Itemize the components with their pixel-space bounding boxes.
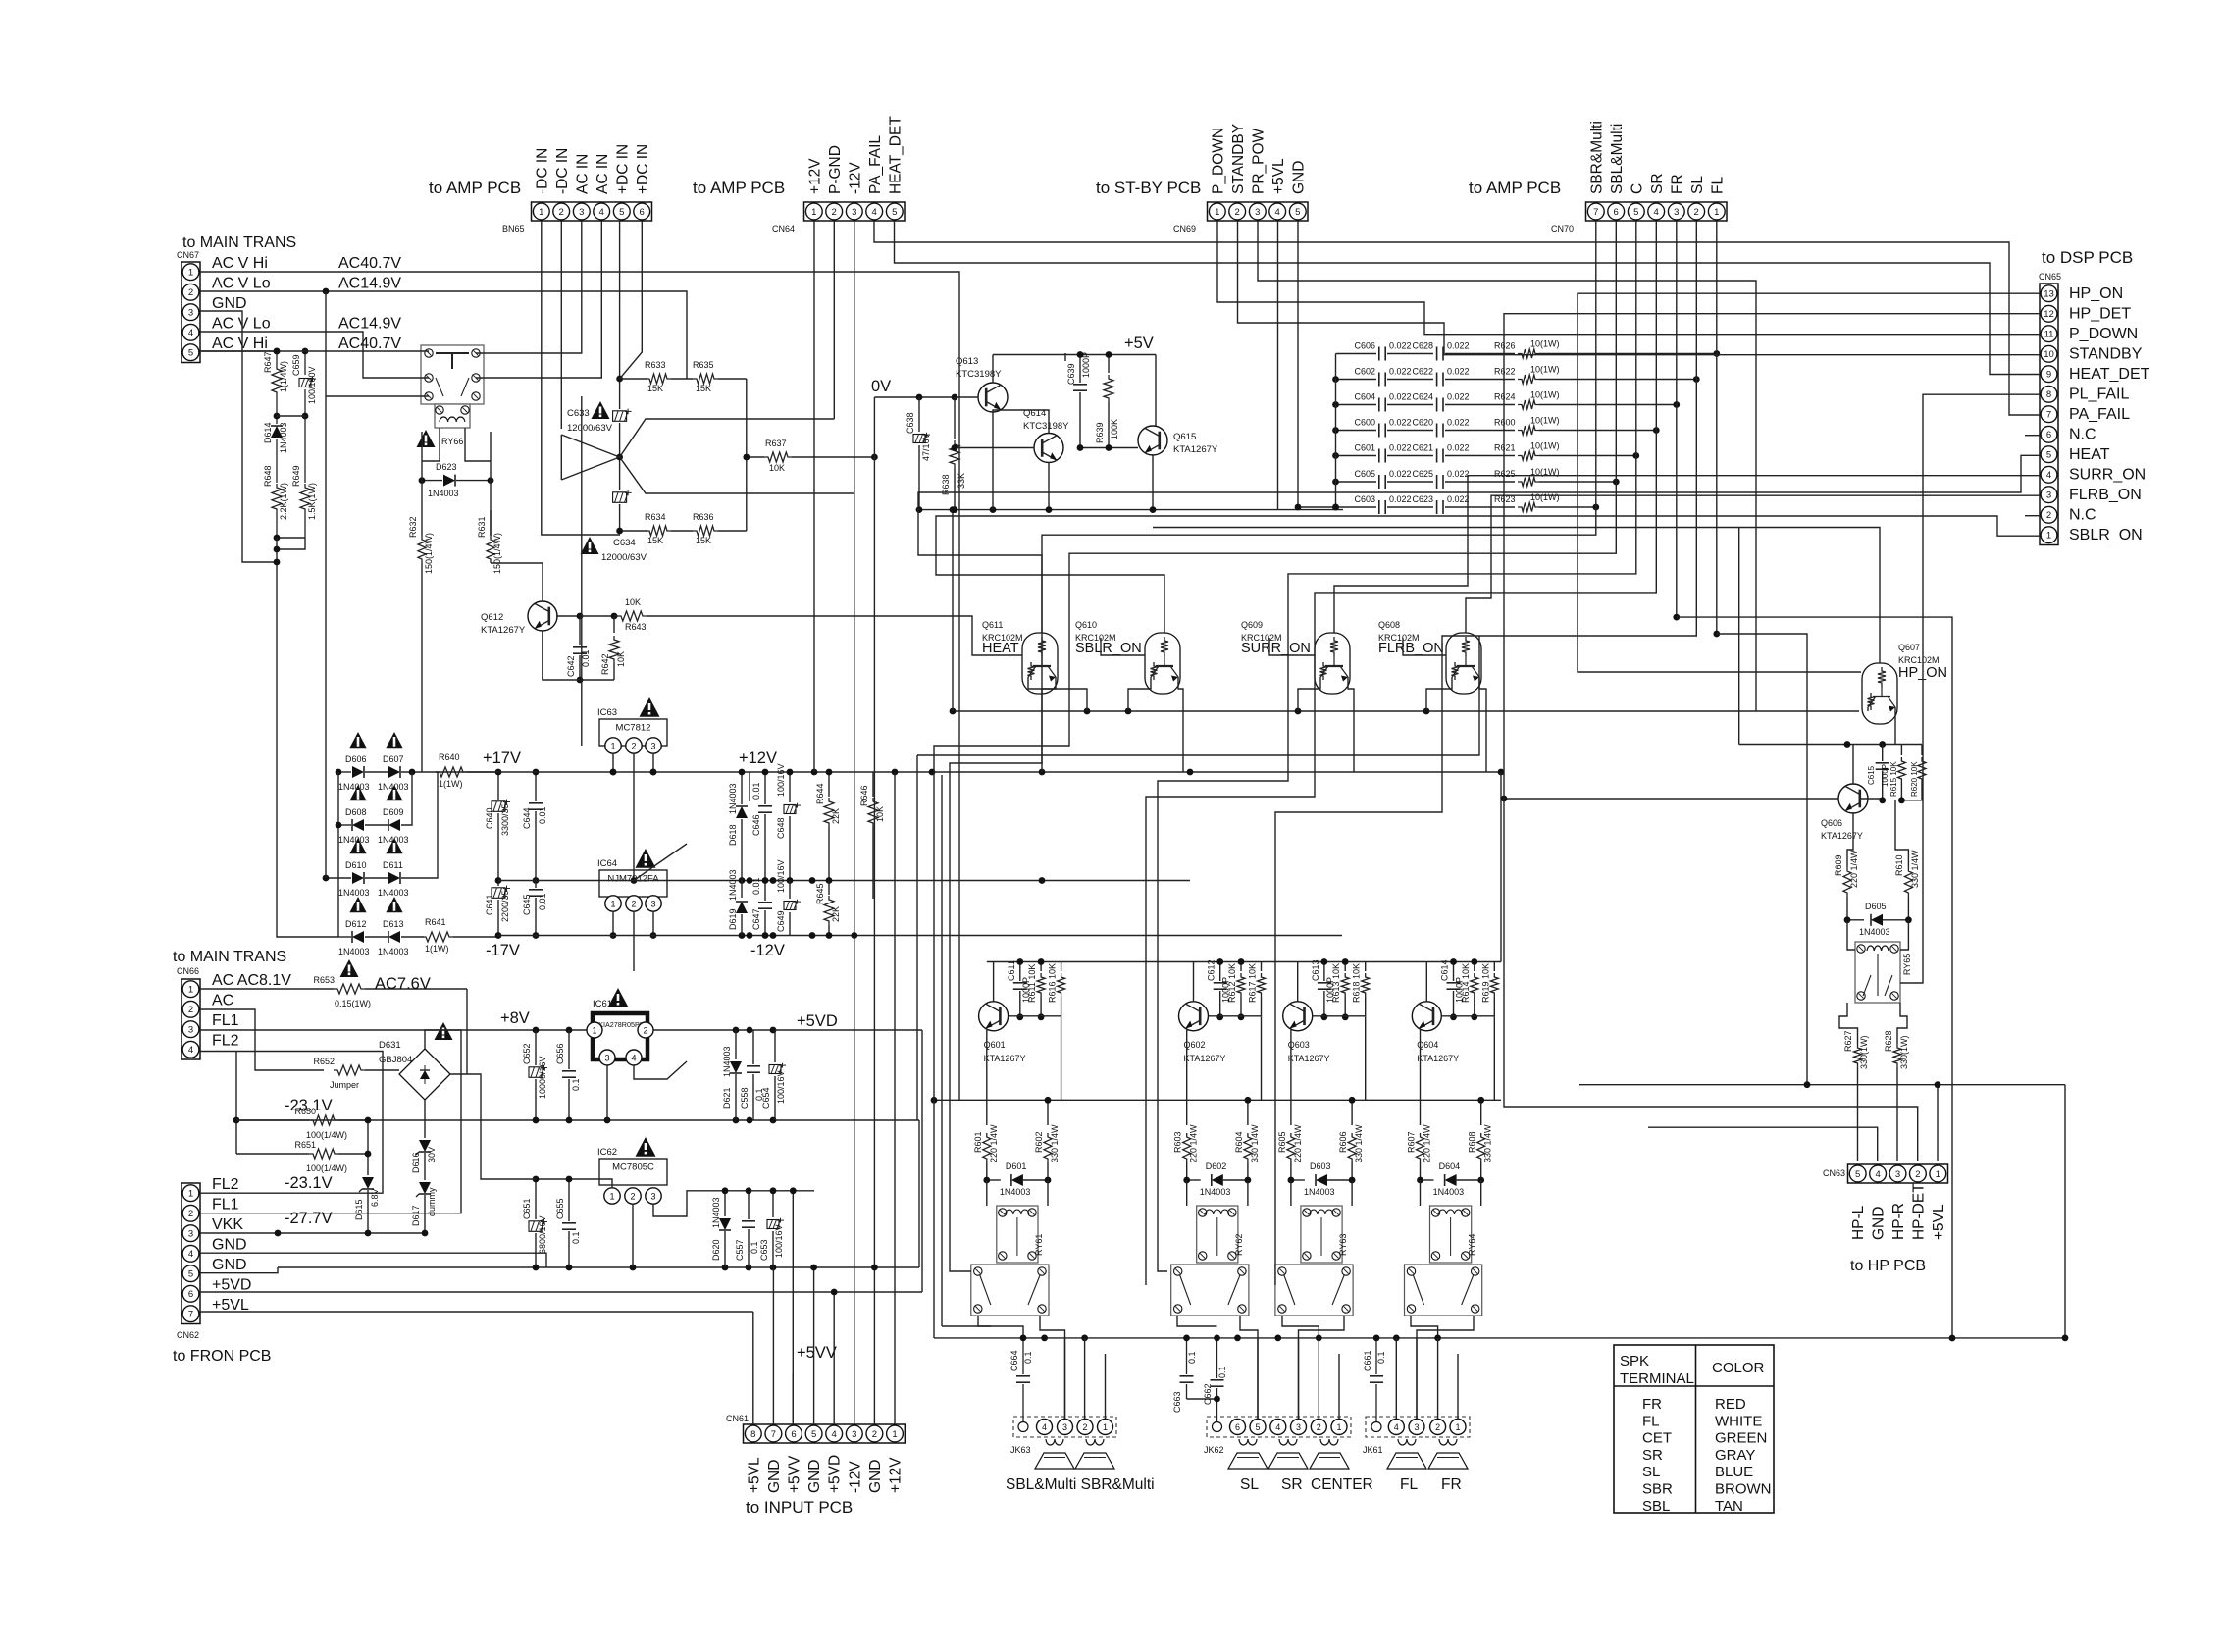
diode matrix D612 D613 bbox=[338, 936, 351, 938]
svg-text:GND: GND bbox=[1871, 1207, 1888, 1240]
svg-text:D619: D619 bbox=[728, 908, 738, 930]
diode D601 1N4003 bbox=[987, 1179, 1001, 1181]
svg-text:100/16V: 100/16V bbox=[776, 1070, 786, 1104]
svg-text:100(1/4W): 100(1/4W) bbox=[306, 1130, 347, 1140]
svg-text:P_DOWN: P_DOWN bbox=[1210, 128, 1226, 194]
svg-text:JK62: JK62 bbox=[1204, 1445, 1224, 1455]
svg-text:10(1W): 10(1W) bbox=[1530, 365, 1560, 375]
wires into CN63 bbox=[1579, 1084, 2065, 1086]
svg-text:+5VL: +5VL bbox=[1931, 1204, 1947, 1240]
svg-text:1N4003: 1N4003 bbox=[1859, 927, 1890, 937]
svg-text:5: 5 bbox=[619, 207, 624, 218]
mesh step wires rc rows to relay contacts bbox=[950, 507, 1596, 1271]
svg-text:SR: SR bbox=[1649, 173, 1666, 194]
diode D603 1N4003 bbox=[1291, 1179, 1305, 1181]
svg-text:HP-L: HP-L bbox=[1850, 1205, 1867, 1240]
capacitor C653 bbox=[772, 1191, 774, 1217]
svg-text:D604: D604 bbox=[1439, 1162, 1461, 1171]
resistor R603 220 bbox=[1183, 1133, 1191, 1162]
svg-text:C663: C663 bbox=[1172, 1391, 1182, 1413]
capacitor C647 bbox=[764, 881, 766, 902]
svg-text:R618 10K: R618 10K bbox=[1352, 963, 1362, 1003]
svg-text:4: 4 bbox=[188, 1045, 193, 1056]
svg-text:3300/35: 3300/35 bbox=[500, 803, 510, 836]
svg-text:3: 3 bbox=[1296, 1422, 1301, 1432]
svg-text:D612: D612 bbox=[345, 919, 367, 929]
box wire around HP circuit bbox=[1677, 617, 1952, 1338]
capacitor C611 bbox=[1019, 962, 1021, 982]
svg-text:JK61: JK61 bbox=[1363, 1445, 1383, 1455]
svg-text:BN65: BN65 bbox=[502, 224, 525, 233]
svg-text:11: 11 bbox=[2044, 330, 2054, 340]
diode D614 bbox=[276, 416, 278, 424]
svg-text:R628: R628 bbox=[1884, 1030, 1893, 1052]
svg-text:5: 5 bbox=[1855, 1169, 1860, 1180]
svg-text:C622: C622 bbox=[1412, 367, 1433, 377]
svg-text:to HP PCB: to HP PCB bbox=[1850, 1258, 1926, 1274]
svg-text:1(1/4W): 1(1/4W) bbox=[279, 361, 288, 392]
diode matrix D610 D611 bbox=[326, 877, 351, 879]
svg-text:+5VD: +5VD bbox=[827, 1455, 844, 1493]
svg-text:1N4003: 1N4003 bbox=[1304, 1187, 1335, 1197]
svg-text:AC V Hi: AC V Hi bbox=[212, 336, 268, 352]
wire Q602 collector down bbox=[1186, 1030, 1188, 1125]
svg-text:C605: C605 bbox=[1354, 469, 1375, 479]
speaker SL bbox=[1239, 1439, 1257, 1445]
speaker FL bbox=[1398, 1439, 1416, 1445]
driver base feed wires bbox=[1101, 638, 1145, 655]
svg-text:to MAIN TRANS: to MAIN TRANS bbox=[182, 234, 296, 251]
speaker CENTER bbox=[1320, 1439, 1338, 1445]
svg-text:Q610: Q610 bbox=[1075, 620, 1097, 630]
resistor R610 bbox=[1907, 863, 1909, 867]
svg-text:1N4003: 1N4003 bbox=[338, 947, 370, 956]
svg-text:330 1/4W: 330 1/4W bbox=[1354, 1124, 1364, 1162]
svg-text:D631: D631 bbox=[379, 1040, 401, 1051]
svg-text:13: 13 bbox=[2044, 289, 2054, 300]
svg-text:R635: R635 bbox=[693, 360, 714, 370]
svg-text:SPK: SPK bbox=[1620, 1353, 1649, 1369]
svg-text:R642: R642 bbox=[600, 653, 610, 675]
svg-text:C654: C654 bbox=[761, 1087, 771, 1109]
svg-text:HP-DET: HP-DET bbox=[1910, 1183, 1927, 1240]
svg-text:R636: R636 bbox=[693, 512, 714, 522]
relay RY64 bbox=[1430, 1206, 1472, 1263]
gnd rail 1142 bbox=[236, 1119, 919, 1121]
capacitor C651 bbox=[535, 1179, 537, 1219]
svg-text:9: 9 bbox=[2046, 370, 2051, 381]
wire relay RY63 outputs bbox=[1282, 1316, 1319, 1338]
diode D604 1N4003 bbox=[1421, 1179, 1434, 1181]
transistor Q610 KRC102M SBLR_ON bbox=[1145, 633, 1180, 694]
svg-text:1: 1 bbox=[1455, 1422, 1460, 1432]
svg-text:2: 2 bbox=[2046, 510, 2051, 521]
channel top rail bbox=[987, 961, 1501, 963]
svg-text:HEAT_DET: HEAT_DET bbox=[2069, 366, 2150, 383]
speaker SBR&Multi bbox=[1086, 1439, 1104, 1445]
svg-text:4: 4 bbox=[599, 207, 604, 218]
svg-text:330 1/4W: 330 1/4W bbox=[1483, 1124, 1493, 1162]
svg-text:-27.7V: -27.7V bbox=[285, 1210, 333, 1227]
wire PA_FAIL down and right bbox=[874, 221, 2040, 415]
svg-text:GREEN: GREEN bbox=[1715, 1430, 1767, 1447]
resistor R641 bbox=[422, 936, 424, 938]
wire diode bus bbox=[337, 772, 339, 825]
svg-text:PA_FAIL: PA_FAIL bbox=[867, 135, 884, 194]
speaker jack JK62 bbox=[1207, 1417, 1351, 1437]
wire relay RY64 outputs bbox=[1411, 1316, 1438, 1338]
svg-text:2: 2 bbox=[188, 1005, 193, 1015]
capacitor C644 bbox=[535, 772, 537, 801]
svg-text:HEAT: HEAT bbox=[982, 641, 1019, 656]
svg-text:0.1: 0.1 bbox=[1023, 1351, 1033, 1364]
capacitor C656 bbox=[568, 1030, 570, 1069]
svg-text:R633: R633 bbox=[645, 360, 666, 370]
svg-text:STANDBY: STANDBY bbox=[2069, 346, 2143, 363]
svg-text:2: 2 bbox=[1694, 207, 1699, 218]
resistor R635 bbox=[693, 374, 718, 384]
svg-text:150(1/4W): 150(1/4W) bbox=[492, 533, 502, 574]
svg-text:RY66: RY66 bbox=[441, 437, 463, 446]
svg-text:FL1: FL1 bbox=[212, 1012, 239, 1029]
svg-text:CN69: CN69 bbox=[1173, 224, 1196, 233]
svg-text:Q607: Q607 bbox=[1898, 643, 1920, 652]
capacitor C664 bbox=[1022, 1338, 1024, 1374]
svg-text:3: 3 bbox=[1062, 1422, 1067, 1432]
resistor R611 bbox=[1040, 962, 1042, 972]
relay RY61 bbox=[997, 1206, 1038, 1263]
svg-text:5: 5 bbox=[811, 1429, 816, 1440]
svg-text:10(1W): 10(1W) bbox=[1530, 416, 1560, 426]
svg-text:BLUE: BLUE bbox=[1715, 1464, 1753, 1480]
svg-text:10: 10 bbox=[2044, 349, 2054, 360]
svg-text:-DC IN: -DC IN bbox=[554, 148, 571, 194]
svg-text:FL: FL bbox=[1642, 1413, 1660, 1429]
svg-text:R622: R622 bbox=[1494, 367, 1516, 377]
svg-text:1: 1 bbox=[188, 985, 193, 996]
svg-text:4: 4 bbox=[1875, 1169, 1880, 1180]
svg-text:GRAY: GRAY bbox=[1715, 1447, 1755, 1464]
wire Q602 emitter to top rail bbox=[1193, 962, 1195, 1002]
svg-text:0.022: 0.022 bbox=[1389, 341, 1412, 351]
svg-text:3: 3 bbox=[2046, 490, 2051, 501]
svg-text:R615 10K: R615 10K bbox=[1889, 761, 1898, 797]
wire Q606 base feed bbox=[1504, 798, 1838, 800]
wire CN67 pin4 AC V Lo bbox=[200, 332, 429, 378]
svg-text:R646: R646 bbox=[859, 785, 869, 806]
svg-text:RY65: RY65 bbox=[1902, 954, 1912, 975]
svg-text:D603: D603 bbox=[1310, 1162, 1331, 1171]
svg-text:GND: GND bbox=[1290, 161, 1307, 194]
svg-text:CN62: CN62 bbox=[177, 1330, 199, 1340]
svg-text:SURR_ON: SURR_ON bbox=[1241, 641, 1311, 656]
svg-text:C642: C642 bbox=[566, 655, 576, 677]
svg-text:22K: 22K bbox=[831, 808, 841, 824]
svg-text:+12V: +12V bbox=[806, 158, 823, 194]
transistor Q604 KTA1267Y bbox=[1412, 1002, 1441, 1031]
svg-text:SR: SR bbox=[1642, 1447, 1663, 1464]
svg-text:4: 4 bbox=[1275, 1422, 1280, 1432]
svg-text:220 1/4W: 220 1/4W bbox=[1293, 1124, 1303, 1162]
svg-text:7: 7 bbox=[2046, 410, 2051, 421]
transistor Q608 KRC102M FLRB_ON bbox=[1446, 633, 1481, 694]
capacitor C646 bbox=[749, 772, 750, 801]
svg-text:C653: C653 bbox=[759, 1239, 769, 1261]
svg-text:C640: C640 bbox=[485, 807, 494, 829]
svg-text:1: 1 bbox=[1336, 1422, 1341, 1432]
resistor R638 bbox=[954, 397, 956, 439]
svg-text:AC40.7V: AC40.7V bbox=[338, 336, 401, 352]
capacitor C633 bbox=[613, 411, 627, 422]
capacitor C612 bbox=[1219, 962, 1221, 982]
resistor R607 220 bbox=[1417, 1133, 1424, 1162]
svg-text:15K: 15K bbox=[647, 384, 663, 393]
svg-text:10(1W): 10(1W) bbox=[1530, 339, 1560, 349]
wire +8V to IC62 area bbox=[536, 1179, 612, 1188]
channel mid rail bbox=[934, 1099, 1501, 1101]
svg-text:12000/63V: 12000/63V bbox=[567, 423, 613, 434]
svg-text:BROWN: BROWN bbox=[1715, 1481, 1772, 1498]
svg-text:3: 3 bbox=[1895, 1169, 1900, 1180]
capacitor C641 bbox=[497, 881, 499, 887]
IC62 MC7805C bbox=[599, 1159, 667, 1185]
svg-text:MC7812: MC7812 bbox=[616, 722, 651, 733]
diode D617 dummy bbox=[419, 1182, 431, 1194]
wire Q601 emitter to top rail bbox=[993, 962, 995, 1002]
wire CN67 pin5 to R647 bbox=[200, 350, 277, 352]
svg-text:CN66: CN66 bbox=[177, 966, 199, 976]
svg-text:GND: GND bbox=[212, 295, 247, 312]
svg-text:RY64: RY64 bbox=[1468, 1234, 1477, 1256]
speaker jack JK61 bbox=[1366, 1417, 1470, 1437]
svg-text:C656: C656 bbox=[555, 1043, 565, 1064]
svg-text:HP-R: HP-R bbox=[1890, 1203, 1907, 1240]
resistor R615 bbox=[1900, 745, 1902, 756]
svg-text:0.022: 0.022 bbox=[1389, 367, 1412, 377]
svg-text:5: 5 bbox=[2046, 450, 2051, 461]
svg-text:R612 10K: R612 10K bbox=[1227, 963, 1237, 1003]
channel block outline wires bbox=[917, 636, 1479, 755]
capacitor C558 bbox=[752, 1030, 754, 1064]
svg-text:12: 12 bbox=[2044, 309, 2054, 320]
svg-text:FL2: FL2 bbox=[212, 1176, 239, 1193]
capacitor C615 bbox=[1882, 745, 1884, 762]
svg-text:10K: 10K bbox=[875, 806, 885, 822]
svg-text:0.022: 0.022 bbox=[1389, 469, 1412, 479]
svg-text:SL: SL bbox=[1240, 1476, 1259, 1493]
svg-text:R601: R601 bbox=[973, 1131, 983, 1153]
svg-text:D618: D618 bbox=[728, 824, 738, 846]
svg-text:RY61: RY61 bbox=[1034, 1234, 1044, 1256]
svg-text:-DC IN: -DC IN bbox=[534, 148, 550, 194]
wire relay RY66 feeds bbox=[325, 291, 327, 878]
resistor R643 bbox=[614, 615, 618, 617]
svg-text:+12V: +12V bbox=[739, 749, 777, 767]
svg-text:C647: C647 bbox=[751, 908, 761, 930]
svg-text:4: 4 bbox=[872, 207, 877, 218]
svg-text:C625: C625 bbox=[1412, 469, 1433, 479]
svg-text:6: 6 bbox=[791, 1429, 796, 1440]
svg-text:3: 3 bbox=[650, 899, 655, 908]
svg-text:7: 7 bbox=[771, 1429, 776, 1440]
svg-text:-23.1V: -23.1V bbox=[285, 1174, 333, 1192]
svg-text:C638: C638 bbox=[906, 412, 915, 434]
resistor R639 bbox=[1108, 355, 1110, 374]
svg-text:R648: R648 bbox=[263, 465, 273, 487]
+5VD rail from IC61 bbox=[653, 1029, 922, 1031]
svg-text:Q615: Q615 bbox=[1173, 432, 1196, 442]
svg-text:2: 2 bbox=[188, 287, 193, 298]
svg-text:6800/16V: 6800/16V bbox=[538, 1215, 547, 1254]
svg-text:SL: SL bbox=[1642, 1464, 1660, 1480]
svg-text:KTC3198Y: KTC3198Y bbox=[956, 369, 1002, 380]
connector CN62 to FRON PCB bbox=[181, 1183, 200, 1324]
svg-text:IC62: IC62 bbox=[597, 1147, 617, 1158]
svg-text:1: 1 bbox=[1103, 1422, 1108, 1432]
svg-text:1N4003: 1N4003 bbox=[428, 489, 459, 498]
wire CN67 pin2 AC V Lo bbox=[200, 291, 687, 379]
svg-text:KTA1267Y: KTA1267Y bbox=[1288, 1054, 1330, 1063]
svg-text:CN70: CN70 bbox=[1551, 224, 1574, 233]
svg-text:C645: C645 bbox=[522, 894, 532, 915]
svg-text:5: 5 bbox=[892, 207, 897, 218]
svg-text:330(1W): 330(1W) bbox=[1899, 1035, 1909, 1069]
svg-text:C614: C614 bbox=[1440, 959, 1450, 981]
svg-text:1: 1 bbox=[609, 1191, 614, 1201]
svg-text:1000P: 1000P bbox=[1881, 764, 1889, 787]
svg-text:10K: 10K bbox=[625, 597, 641, 607]
svg-text:to AMP PCB: to AMP PCB bbox=[429, 179, 521, 197]
wire Q604 emitter to top rail bbox=[1425, 962, 1427, 1002]
svg-text:15K: 15K bbox=[696, 384, 711, 393]
svg-text:4: 4 bbox=[188, 328, 193, 338]
svg-text:5: 5 bbox=[188, 1269, 193, 1280]
svg-text:C648: C648 bbox=[776, 817, 786, 839]
svg-text:0.022: 0.022 bbox=[1447, 341, 1470, 351]
svg-text:C661: C661 bbox=[1363, 1350, 1372, 1371]
rail -17V/-12V bbox=[498, 935, 1342, 937]
svg-text:5: 5 bbox=[188, 348, 193, 359]
svg-text:R607: R607 bbox=[1407, 1131, 1417, 1153]
verticals CN61 rising bbox=[892, 769, 899, 776]
gnd rail 1292 bbox=[278, 1266, 919, 1268]
svg-text:+DC IN: +DC IN bbox=[614, 144, 631, 194]
svg-text:R644: R644 bbox=[815, 783, 825, 804]
wire IC64 pins bbox=[612, 911, 614, 936]
svg-text:0.1: 0.1 bbox=[571, 1231, 581, 1244]
svg-text:C601: C601 bbox=[1354, 443, 1375, 453]
capacitor C648 bbox=[789, 772, 791, 802]
+5VD rail link bbox=[921, 1030, 923, 1292]
svg-text:C634: C634 bbox=[613, 538, 636, 548]
svg-text:-12V: -12V bbox=[847, 1461, 863, 1493]
svg-text:3: 3 bbox=[650, 1191, 655, 1201]
svg-text:1: 1 bbox=[1936, 1169, 1940, 1180]
svg-text:SURR_ON: SURR_ON bbox=[2069, 467, 2146, 484]
svg-text:2: 2 bbox=[643, 1025, 647, 1035]
svg-text:330(1W): 330(1W) bbox=[1859, 1035, 1869, 1069]
svg-text:1: 1 bbox=[811, 207, 816, 218]
svg-text:3: 3 bbox=[604, 1053, 609, 1062]
svg-text:330 1/4W: 330 1/4W bbox=[1910, 850, 1920, 888]
svg-text:1N4003: 1N4003 bbox=[378, 888, 409, 898]
bridge rectifier D631 GBJ804 bbox=[399, 1049, 450, 1100]
capacitor C638 bbox=[918, 397, 920, 432]
svg-text:D606: D606 bbox=[345, 754, 367, 764]
speaker FR bbox=[1439, 1439, 1457, 1445]
svg-text:to INPUT PCB: to INPUT PCB bbox=[746, 1498, 853, 1517]
wires jack pins up bbox=[1064, 1338, 1066, 1419]
wire Q604 collector down bbox=[1420, 1030, 1422, 1125]
svg-text:1N4003: 1N4003 bbox=[338, 888, 370, 898]
resistor R652 Jumper bbox=[200, 1009, 324, 1070]
svg-text:FR: FR bbox=[1669, 174, 1685, 194]
svg-text:AC14.9V: AC14.9V bbox=[338, 276, 401, 292]
svg-text:C651: C651 bbox=[522, 1198, 532, 1219]
svg-text:R613 10K: R613 10K bbox=[1331, 963, 1341, 1003]
svg-text:R653: R653 bbox=[313, 975, 335, 985]
svg-text:C603: C603 bbox=[1354, 494, 1375, 504]
diode D615 6.8V bbox=[367, 1120, 369, 1175]
svg-text:2: 2 bbox=[1082, 1422, 1087, 1432]
resistor R619 bbox=[1493, 962, 1495, 972]
svg-text:C620: C620 bbox=[1412, 418, 1433, 428]
capacitor C662 bbox=[1216, 1338, 1218, 1378]
resistor R634 bbox=[620, 530, 647, 532]
svg-text:C659: C659 bbox=[291, 354, 301, 376]
BN65 pin drops bbox=[542, 221, 620, 535]
wire relay RY61 outputs bbox=[978, 1316, 1023, 1338]
svg-text:4: 4 bbox=[1394, 1422, 1399, 1432]
svg-text:AC V Hi: AC V Hi bbox=[212, 255, 268, 272]
svg-text:1: 1 bbox=[610, 741, 615, 750]
svg-text:10K: 10K bbox=[616, 651, 626, 667]
svg-text:0.1: 0.1 bbox=[1376, 1351, 1386, 1364]
svg-text:C652: C652 bbox=[522, 1043, 532, 1064]
resistor R606 330 bbox=[1351, 1100, 1353, 1125]
svg-text:SBL: SBL bbox=[1642, 1498, 1670, 1515]
wire Q601 base bbox=[1009, 1015, 1061, 1017]
svg-text:D602: D602 bbox=[1206, 1162, 1227, 1171]
svg-text:5: 5 bbox=[1295, 207, 1300, 218]
svg-text:4: 4 bbox=[188, 1249, 193, 1260]
svg-text:P-GND: P-GND bbox=[827, 145, 844, 194]
svg-text:R639: R639 bbox=[1095, 422, 1105, 443]
svg-text:R619 10K: R619 10K bbox=[1480, 963, 1490, 1003]
svg-text:2: 2 bbox=[1317, 1422, 1321, 1432]
svg-text:D605: D605 bbox=[1865, 902, 1887, 911]
svg-text:Q612: Q612 bbox=[481, 612, 503, 623]
svg-text:1: 1 bbox=[188, 268, 193, 279]
svg-text:KTA1267Y: KTA1267Y bbox=[984, 1054, 1026, 1063]
svg-text:GBJ804: GBJ804 bbox=[379, 1055, 412, 1065]
resistor R620 bbox=[1921, 745, 1923, 756]
svg-text:AC IN: AC IN bbox=[595, 154, 611, 194]
svg-text:R606: R606 bbox=[1338, 1131, 1348, 1153]
svg-text:GND: GND bbox=[766, 1460, 783, 1493]
svg-text:D613: D613 bbox=[383, 919, 404, 929]
svg-text:R616 10K: R616 10K bbox=[1048, 963, 1058, 1003]
svg-text:R625: R625 bbox=[1494, 469, 1516, 479]
svg-text:AC AC8.1V: AC AC8.1V bbox=[212, 972, 291, 989]
svg-text:0.022: 0.022 bbox=[1447, 494, 1470, 504]
svg-text:R643: R643 bbox=[625, 622, 647, 632]
wire Q604 base bbox=[1441, 1015, 1494, 1017]
svg-text:R632: R632 bbox=[408, 516, 418, 538]
svg-text:330 1/4W: 330 1/4W bbox=[1050, 1124, 1060, 1162]
svg-text:C: C bbox=[1629, 183, 1645, 194]
svg-text:22K: 22K bbox=[831, 906, 841, 922]
